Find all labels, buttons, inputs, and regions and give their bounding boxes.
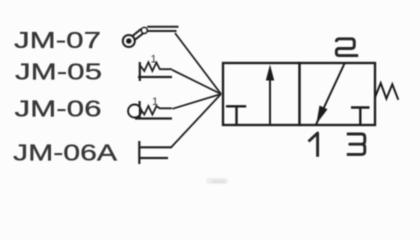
port label 2: [336, 39, 358, 56]
valve return spring: [375, 83, 398, 100]
actuator JM-06A plunger bottom bar: [140, 157, 168, 159]
port label 1: [309, 133, 318, 157]
port label 3: [347, 134, 365, 154]
actuator JM-05 spring plunger : end bar: [139, 62, 141, 81]
svg-text:JM-07: JM-07: [14, 27, 101, 53]
valve V1 body left cell: [223, 63, 300, 125]
actuator JM-07 roller lever : roller circle: [123, 35, 135, 47]
actuator JM-07 lever pivot circle: [141, 28, 147, 34]
actuator JM-05 base line: [138, 76, 172, 78]
wire JM-06A to node A: [171, 94, 222, 148]
actuator JM-07 lever arm diagonal lines: [132, 29, 141, 36]
valve left cell flow arrow up: [269, 70, 271, 125]
scan smudge: [206, 178, 228, 184]
svg-text:JM-05: JM-05: [15, 59, 102, 85]
svg-text:JM-06A: JM-06A: [13, 140, 117, 166]
actuator JM-06A plunger top bar: [140, 146, 171, 148]
actuator JM-06 roller : roller circle: [128, 105, 141, 118]
actuator JM-07 lever horizontal bars: [147, 26, 178, 28]
valve right cell flow path arrow 2 to 1: [316, 64, 345, 126]
wire JM-05 to node A: [172, 70, 221, 94]
valve V1 body right cell: [300, 63, 376, 125]
svg-text:1: 1: [152, 96, 158, 108]
valve right cell blocked port T (port 3): [351, 106, 370, 108]
actuator JM-05 spring zigzag: [140, 62, 172, 71]
actuator JM-06 base line: [135, 117, 172, 119]
wire JM-06 to node A: [173, 94, 222, 109]
svg-text:JM-06: JM-06: [15, 96, 102, 122]
actuator JM-07 roller pin: [126, 38, 132, 44]
actuator JM-06 end bar: [139, 101, 141, 119]
wire JM-07 to node A: [175, 33, 221, 94]
actuator JM-06A plunger : end bar: [138, 141, 140, 164]
actuator JM-06 spring zigzag: [140, 106, 172, 115]
valve left cell blocked port T: [226, 105, 246, 107]
svg-text:1: 1: [151, 53, 157, 65]
